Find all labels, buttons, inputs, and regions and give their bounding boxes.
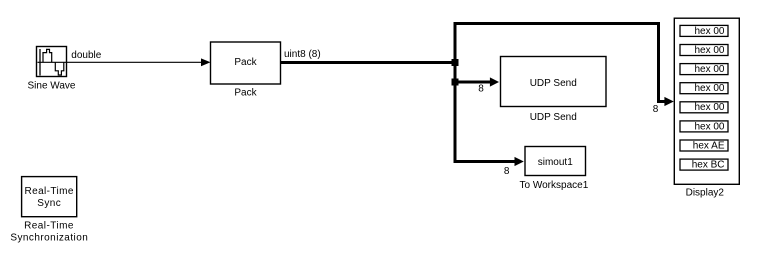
svg-text:hex 00: hex 00 — [694, 102, 724, 113]
label Real-Time Synchronization — [10, 221, 88, 244]
display field hex 00 (2) — [680, 45, 728, 56]
svg-text:Pack: Pack — [234, 87, 257, 98]
svg-text:hex 00: hex 00 — [694, 64, 724, 75]
svg-text:Synchronization: Synchronization — [10, 233, 88, 244]
wire branch to UDP Send — [455, 77, 499, 86]
svg-text:hex 00: hex 00 — [694, 121, 724, 132]
svg-text:double: double — [71, 50, 101, 61]
block UDP Send — [501, 57, 607, 107]
label Display2 — [686, 187, 725, 198]
svg-text:To Workspace1: To Workspace1 — [520, 180, 589, 191]
arrowhead into simout1 — [515, 157, 524, 166]
block Display2 — [674, 18, 739, 184]
svg-text:hex BC: hex BC — [692, 160, 725, 171]
signal label uint8 (8) — [284, 49, 321, 60]
block Sine Wave — [37, 47, 67, 77]
svg-text:UDP Send: UDP Send — [530, 78, 577, 89]
port width label 8 (simout1 branch) — [504, 166, 510, 177]
signal label double — [71, 50, 101, 61]
display field hex AE — [680, 140, 728, 151]
svg-text:uint8 (8): uint8 (8) — [284, 49, 321, 60]
display field hex 00 (6) — [680, 121, 728, 132]
wire Pack output to trunk junction — [281, 61, 457, 64]
label To Workspace1 — [520, 180, 589, 191]
block Real-Time Sync — [22, 177, 77, 217]
svg-text:simout1: simout1 — [538, 157, 573, 168]
wire trunk: bottom branch, vertical trunk, top branch to Display2 — [455, 24, 665, 162]
svg-text:8: 8 — [653, 104, 659, 115]
wire Sine Wave to Pack — [67, 58, 211, 66]
display field hex 00 (1) — [680, 25, 728, 36]
svg-text:hex 00: hex 00 — [694, 83, 724, 94]
label Sine Wave — [28, 81, 76, 92]
svg-text:Sync: Sync — [37, 198, 61, 209]
label Pack — [234, 87, 257, 98]
port width label 8 (UDP branch) — [478, 84, 484, 95]
svg-text:hex 00: hex 00 — [694, 26, 724, 37]
arrowhead into Display2 — [664, 97, 673, 106]
svg-text:Real-Time: Real-Time — [24, 221, 74, 232]
svg-text:Real-Time: Real-Time — [25, 186, 74, 197]
display field hex 00 (5) — [680, 102, 728, 113]
block simout1 (To Workspace) — [525, 147, 586, 176]
label UDP Send — [530, 112, 577, 123]
svg-text:8: 8 — [504, 166, 510, 177]
svg-text:UDP Send: UDP Send — [530, 112, 577, 123]
svg-text:hex 00: hex 00 — [694, 45, 724, 56]
display field hex 00 (4) — [680, 83, 728, 94]
junction at trunk and Pack wire — [452, 59, 459, 66]
junction at UDP Send branch — [452, 79, 459, 86]
block Pack — [211, 42, 281, 84]
svg-text:Display2: Display2 — [686, 187, 725, 198]
svg-text:hex AE: hex AE — [693, 140, 725, 151]
display field hex BC — [680, 159, 728, 170]
svg-text:8: 8 — [478, 84, 484, 95]
display field hex 00 (3) — [680, 64, 728, 75]
port width label 8 (Display2 branch) — [653, 104, 659, 115]
svg-text:Pack: Pack — [234, 57, 257, 68]
svg-text:Sine Wave: Sine Wave — [28, 81, 76, 92]
